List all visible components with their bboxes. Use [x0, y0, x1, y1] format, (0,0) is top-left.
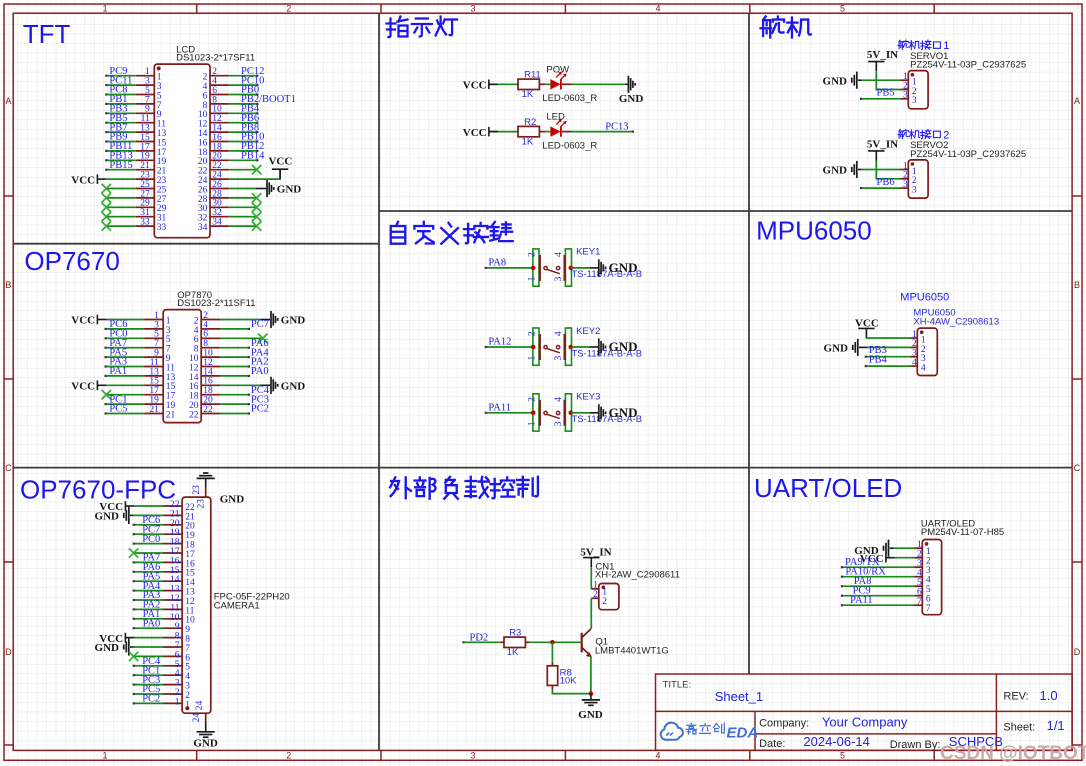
svg-text:21: 21 — [149, 405, 159, 415]
ground port GND — [271, 311, 305, 328]
svg-text:PC7: PC7 — [251, 319, 269, 330]
wire — [842, 595, 915, 597]
svg-text:CSDN @IOTBOT: CSDN @IOTBOT — [940, 743, 1086, 764]
svg-text:R3: R3 — [509, 628, 521, 639]
no-connect X — [102, 184, 111, 193]
wire — [229, 206, 258, 208]
svg-text:1: 1 — [175, 697, 180, 707]
wire — [134, 627, 163, 629]
wire — [134, 646, 163, 648]
wire — [134, 514, 163, 516]
wire — [106, 319, 144, 321]
pushbutton KEY3 TS-1187A-B-A-B — [527, 392, 642, 431]
ground (pin23) — [197, 473, 215, 478]
svg-text:3: 3 — [912, 96, 917, 106]
svg-text:VCC: VCC — [463, 127, 487, 139]
annotation 舵机接口2 — [898, 129, 940, 138]
svg-text:GND: GND — [578, 709, 603, 721]
svg-text:22: 22 — [203, 405, 213, 415]
svg-text:PC13: PC13 — [605, 121, 628, 132]
svg-text:GND: GND — [609, 260, 638, 275]
svg-text:PZ254V-11-03P_C2937625: PZ254V-11-03P_C2937625 — [910, 60, 1026, 71]
wire — [229, 122, 258, 124]
svg-text:GND: GND — [281, 381, 306, 393]
wire — [220, 375, 249, 377]
wire — [220, 366, 249, 368]
svg-text:2: 2 — [527, 331, 537, 336]
wire — [229, 141, 258, 143]
svg-text:TFT: TFT — [23, 19, 71, 49]
svg-text:1: 1 — [527, 356, 537, 361]
svg-text:C: C — [5, 463, 12, 473]
wire — [205, 722, 207, 732]
svg-text:6: 6 — [926, 595, 931, 605]
connector LCD DS1023-2*17SF11 — [136, 45, 255, 238]
svg-text:KEY2: KEY2 — [576, 326, 600, 337]
ground port GND — [823, 72, 857, 89]
connector SERVO1 PZ254V-11-03P_C2937625 — [901, 51, 1027, 109]
svg-text:33: 33 — [157, 223, 167, 233]
wire — [529, 641, 581, 643]
svg-text:22: 22 — [189, 410, 199, 420]
svg-text:34: 34 — [212, 218, 222, 228]
svg-text:GND: GND — [824, 343, 849, 355]
wire — [562, 131, 572, 133]
svg-text:PB4: PB4 — [869, 355, 888, 366]
section title 自定义按键 — [391, 222, 513, 244]
wire — [134, 674, 163, 676]
wire — [134, 693, 163, 695]
svg-text:3: 3 — [903, 91, 908, 101]
wire — [862, 79, 901, 81]
wire — [867, 346, 910, 348]
ground port GND — [599, 259, 638, 276]
wire — [229, 225, 258, 227]
svg-text:Drawn By:: Drawn By: — [890, 739, 941, 751]
svg-text:5: 5 — [926, 585, 931, 595]
wire — [130, 646, 134, 648]
svg-text:R11: R11 — [524, 70, 541, 81]
svg-text:PC2: PC2 — [251, 404, 269, 415]
svg-text:VCC: VCC — [71, 315, 95, 327]
wire — [134, 533, 163, 535]
wire — [572, 131, 634, 133]
svg-text:2: 2 — [593, 590, 598, 600]
resistor R11 1K — [518, 70, 541, 101]
resistor R2 1K — [518, 117, 539, 148]
wire — [551, 662, 553, 666]
svg-text:3: 3 — [926, 566, 931, 576]
wire — [590, 656, 592, 694]
svg-text:3: 3 — [470, 751, 475, 761]
svg-text:3: 3 — [554, 276, 564, 281]
connector MPU6050 XH-4AW_C2908613 — [910, 308, 999, 376]
wire — [134, 571, 163, 573]
svg-text:LMBT4401WT1G: LMBT4401WT1G — [595, 646, 669, 657]
wire — [134, 552, 163, 554]
no-connect X — [129, 548, 138, 557]
svg-text:5: 5 — [840, 3, 845, 13]
wire — [500, 641, 504, 643]
wire — [229, 159, 258, 161]
svg-text:DS1023-2*17SF11: DS1023-2*17SF11 — [176, 53, 255, 64]
svg-text:VCC: VCC — [71, 174, 95, 186]
svg-text:5: 5 — [840, 751, 845, 761]
ground port GND — [599, 338, 638, 355]
svg-text:2: 2 — [286, 751, 291, 761]
wire — [486, 412, 533, 414]
wire — [106, 394, 144, 396]
svg-text:B: B — [1074, 280, 1080, 290]
svg-text:2: 2 — [917, 550, 922, 560]
wire — [106, 206, 136, 208]
svg-text:PB6: PB6 — [877, 177, 895, 188]
svg-text:C: C — [1074, 463, 1081, 473]
wire — [106, 159, 136, 161]
ground port GND — [95, 507, 129, 524]
wire — [106, 122, 136, 124]
svg-text:DS1023-2*11SF11: DS1023-2*11SF11 — [177, 298, 255, 309]
svg-text:PC5: PC5 — [109, 404, 127, 415]
wire — [551, 642, 553, 662]
no-connect X — [252, 221, 261, 230]
svg-text:B: B — [5, 280, 11, 290]
svg-text:24: 24 — [195, 700, 205, 710]
svg-text:A: A — [5, 96, 11, 106]
wire — [859, 346, 867, 348]
wire — [229, 103, 258, 105]
wire — [106, 375, 145, 377]
svg-text:5: 5 — [917, 578, 922, 588]
svg-text:7: 7 — [926, 604, 931, 614]
wire — [551, 685, 553, 689]
svg-text:GND: GND — [281, 315, 306, 327]
svg-text:1K: 1K — [522, 89, 534, 100]
wire — [106, 384, 144, 386]
annotation 舵机接口1 — [898, 40, 940, 49]
ground port GND — [271, 377, 305, 394]
svg-text:PM254V-11-07-H85: PM254V-11-07-H85 — [921, 527, 1004, 538]
svg-text:UART/OLED: UART/OLED — [754, 473, 902, 503]
wire — [842, 566, 915, 568]
svg-text:TITLE:: TITLE: — [663, 679, 692, 690]
wire — [106, 356, 145, 358]
svg-text:PA8: PA8 — [488, 257, 506, 268]
wire — [106, 178, 135, 180]
pushbutton KEY2 TS-1187A-B-A-B — [527, 326, 642, 366]
svg-text:GND: GND — [823, 165, 848, 177]
svg-text:Date:: Date: — [759, 738, 785, 750]
svg-text:VCC: VCC — [463, 80, 487, 92]
wire — [866, 356, 910, 358]
svg-text:21: 21 — [166, 410, 176, 420]
wire — [498, 131, 518, 133]
svg-text:D: D — [5, 647, 12, 657]
svg-text:4: 4 — [917, 569, 922, 579]
svg-text:REV:: REV: — [1003, 691, 1028, 703]
svg-text:XH-4AW_C2908613: XH-4AW_C2908613 — [913, 316, 999, 327]
wire — [134, 543, 163, 545]
wire — [134, 580, 163, 582]
wire — [134, 505, 163, 507]
svg-text:GND: GND — [220, 494, 245, 506]
svg-text:GND: GND — [95, 642, 120, 654]
wire — [229, 112, 258, 114]
svg-text:PZ254V-11-03P_C2937625: PZ254V-11-03P_C2937625 — [910, 149, 1026, 160]
wire — [260, 319, 270, 321]
ground — [582, 700, 600, 705]
wire — [260, 384, 270, 386]
no-connect X — [129, 652, 138, 661]
wire — [229, 131, 258, 133]
wire — [842, 576, 915, 578]
power port 5V_IN — [580, 546, 611, 567]
svg-text:4: 4 — [926, 576, 931, 586]
wire — [106, 150, 136, 152]
wire — [545, 83, 550, 85]
svg-text:1: 1 — [527, 421, 537, 426]
wire — [106, 169, 136, 171]
svg-text:5V_IN: 5V_IN — [580, 546, 611, 558]
wire — [220, 347, 249, 349]
svg-text:4: 4 — [554, 397, 564, 402]
svg-text:VCC: VCC — [855, 317, 879, 329]
svg-text:4: 4 — [554, 252, 564, 257]
wire — [220, 319, 260, 321]
svg-text:5V_IN: 5V_IN — [867, 138, 898, 150]
svg-text:VCC: VCC — [268, 156, 292, 168]
ground port GND — [599, 404, 638, 421]
no-connect X — [102, 203, 111, 212]
LED LED LED-0603_R — [542, 112, 597, 152]
svg-text:Sheet_1: Sheet_1 — [715, 689, 763, 704]
svg-text:A: A — [1074, 96, 1080, 106]
svg-text:2: 2 — [926, 557, 931, 567]
svg-text:24: 24 — [192, 713, 202, 723]
power port VCC — [71, 174, 106, 186]
svg-text:1: 1 — [102, 3, 107, 13]
svg-text:LED: LED — [546, 112, 565, 123]
power port VCC — [463, 127, 498, 139]
svg-text:23: 23 — [196, 499, 206, 509]
svg-text:4: 4 — [554, 331, 564, 336]
wire — [895, 557, 915, 559]
svg-text:3: 3 — [470, 3, 475, 13]
wire — [866, 365, 910, 367]
svg-text:EDA: EDA — [727, 724, 759, 741]
resistor R8 10K — [547, 666, 577, 687]
transistor Q1 LMBT4401WT1G — [582, 629, 669, 658]
power port VCC — [71, 315, 106, 327]
wire — [626, 83, 628, 85]
no-connect X — [258, 334, 267, 343]
wire — [220, 328, 249, 330]
wire — [229, 150, 258, 152]
svg-text:PA12: PA12 — [488, 337, 511, 348]
wire — [572, 83, 626, 85]
connector CN1 XH-2AW_C2908611 — [591, 562, 680, 610]
svg-text:6: 6 — [917, 588, 922, 598]
wire — [486, 267, 533, 269]
wire — [134, 665, 163, 667]
wire — [489, 83, 498, 85]
svg-text:4: 4 — [655, 751, 660, 761]
section title 舵机 — [761, 17, 811, 38]
wire — [106, 347, 145, 349]
wire — [229, 75, 258, 77]
ground port GND — [824, 339, 858, 356]
wire — [256, 188, 266, 190]
wire — [134, 590, 163, 592]
wire — [539, 83, 545, 85]
wire — [229, 197, 258, 199]
logo text 嘉立创 — [686, 723, 724, 734]
svg-text:1: 1 — [917, 540, 922, 550]
svg-text:3: 3 — [917, 559, 922, 569]
wire — [562, 83, 572, 85]
svg-text:1.0: 1.0 — [1040, 688, 1058, 703]
svg-text:Your Company: Your Company — [822, 714, 908, 729]
svg-text:CAMERA1: CAMERA1 — [214, 600, 260, 611]
wire — [229, 178, 280, 180]
no-connect X — [102, 193, 111, 202]
wire — [486, 346, 533, 348]
wire — [134, 561, 163, 563]
wire — [134, 608, 163, 610]
wire — [866, 336, 910, 339]
wire — [229, 188, 256, 190]
svg-text:1: 1 — [527, 276, 537, 281]
title block — [656, 674, 1073, 750]
power port 5V_IN — [867, 138, 898, 160]
wire — [842, 604, 915, 606]
svg-text:LED-0603_R: LED-0603_R — [542, 141, 597, 152]
wire — [220, 413, 249, 415]
svg-text:KEY3: KEY3 — [576, 392, 600, 403]
connector SERVO2 PZ254V-11-03P_C2937625 — [901, 140, 1027, 198]
connector CAMERA1 FPC-05F-22PH20 — [163, 485, 290, 723]
svg-text:MPU6050: MPU6050 — [900, 291, 949, 303]
svg-text:GND: GND — [193, 737, 218, 749]
svg-text:PA11: PA11 — [488, 402, 511, 413]
wire — [106, 75, 136, 77]
svg-text:1/1: 1/1 — [1047, 718, 1065, 733]
title block text — [663, 679, 1065, 751]
pushbutton KEY1 TS-1187A-B-A-B — [527, 247, 642, 286]
svg-text:PA0: PA0 — [143, 618, 161, 629]
wire — [106, 225, 136, 227]
power port VCC — [71, 381, 106, 393]
wire — [220, 394, 249, 396]
svg-text:7: 7 — [917, 597, 922, 607]
ground port GND — [95, 638, 129, 655]
wire — [861, 187, 900, 189]
wire — [106, 94, 136, 96]
no-connect X — [102, 212, 111, 221]
wire — [862, 169, 901, 171]
svg-text:KEY1: KEY1 — [576, 247, 600, 258]
wire — [106, 366, 145, 368]
wire — [134, 599, 163, 601]
wire — [229, 84, 258, 86]
connector OP7870 DS1023-2*11SF11 — [144, 290, 255, 423]
wire — [590, 346, 599, 348]
svg-text:XH-2AW_C2908611: XH-2AW_C2908611 — [595, 570, 680, 581]
ground port GND — [823, 161, 857, 178]
svg-text:R2: R2 — [524, 117, 536, 128]
no-connect X — [102, 390, 111, 399]
wire — [498, 83, 518, 85]
svg-text:1: 1 — [926, 547, 931, 557]
svg-text:2: 2 — [527, 252, 537, 257]
wire — [861, 98, 900, 100]
wire — [106, 337, 145, 339]
svg-text:4: 4 — [655, 3, 660, 13]
svg-text:GND: GND — [95, 511, 120, 523]
svg-text:1K: 1K — [522, 136, 534, 147]
wire — [134, 618, 163, 620]
svg-text:2024-06-14: 2024-06-14 — [803, 734, 870, 749]
svg-text:VCC: VCC — [71, 381, 95, 393]
svg-text:3: 3 — [554, 421, 564, 426]
wire — [106, 403, 145, 405]
wire — [858, 79, 862, 81]
wire — [571, 412, 590, 414]
wire — [489, 131, 498, 133]
wire — [134, 655, 163, 657]
wire — [134, 702, 163, 704]
power port VCC — [268, 156, 292, 179]
svg-text:PB15: PB15 — [109, 160, 132, 171]
wire — [894, 547, 915, 549]
svg-text:Sheet:: Sheet: — [1003, 722, 1035, 734]
svg-text:3: 3 — [903, 180, 908, 190]
wire — [571, 346, 590, 348]
svg-text:GND: GND — [277, 184, 302, 196]
wire — [590, 694, 592, 700]
no-connect X — [102, 221, 111, 230]
svg-text:PA11: PA11 — [850, 595, 873, 606]
svg-text:POW: POW — [546, 64, 569, 75]
wire — [552, 689, 591, 693]
wire — [130, 514, 134, 516]
svg-text:2: 2 — [286, 3, 291, 13]
power port VCC — [855, 317, 879, 338]
wire — [590, 598, 592, 629]
wire — [590, 567, 592, 589]
ground (pin24) — [197, 732, 215, 737]
svg-text:34: 34 — [198, 223, 208, 233]
wire — [539, 131, 545, 133]
no-connect X — [252, 212, 261, 221]
connector UART/OLED PM254V-11-07-H85 — [915, 519, 1005, 615]
wire — [229, 216, 258, 218]
wire — [106, 216, 136, 218]
svg-text:D: D — [1074, 647, 1081, 657]
svg-text:PC0: PC0 — [142, 534, 160, 545]
ground port GND — [619, 76, 644, 105]
ground port GND — [267, 180, 301, 197]
svg-text:4: 4 — [921, 364, 926, 374]
wire — [545, 131, 550, 133]
svg-text:LED-0603_R: LED-0603_R — [542, 93, 597, 104]
wire — [220, 337, 262, 339]
ground port GND — [854, 540, 888, 557]
wire — [464, 641, 501, 643]
svg-text:GND: GND — [609, 339, 638, 354]
svg-text:GND: GND — [823, 75, 848, 87]
wire — [106, 188, 136, 190]
